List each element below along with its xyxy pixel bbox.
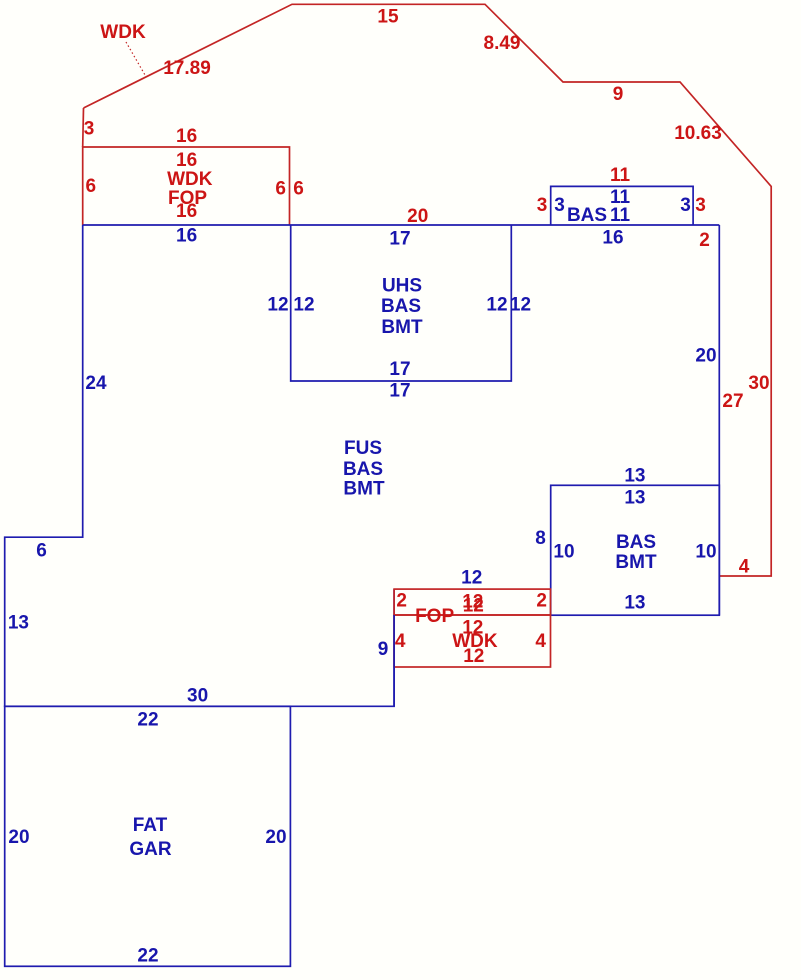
svg-text:20: 20 xyxy=(265,827,286,848)
svg-text:3: 3 xyxy=(695,195,706,216)
svg-text:11: 11 xyxy=(610,165,631,186)
svg-text:GAR: GAR xyxy=(129,839,172,860)
svg-text:BMT: BMT xyxy=(615,552,657,573)
svg-text:30: 30 xyxy=(187,686,208,707)
svg-text:3: 3 xyxy=(554,195,565,216)
svg-text:2: 2 xyxy=(699,230,710,251)
svg-text:12: 12 xyxy=(267,294,288,315)
svg-text:10.63: 10.63 xyxy=(674,123,722,144)
svg-text:30: 30 xyxy=(748,373,769,394)
svg-text:12: 12 xyxy=(461,568,482,589)
svg-text:FAT: FAT xyxy=(133,815,168,836)
svg-text:6: 6 xyxy=(86,176,97,197)
svg-text:BMT: BMT xyxy=(381,317,423,338)
svg-text:17: 17 xyxy=(389,229,410,250)
svg-text:16: 16 xyxy=(176,201,197,222)
svg-text:10: 10 xyxy=(553,541,574,562)
svg-text:20: 20 xyxy=(695,345,716,366)
svg-text:2: 2 xyxy=(536,590,547,611)
svg-text:WDK: WDK xyxy=(100,22,146,43)
svg-text:9: 9 xyxy=(613,84,624,105)
svg-text:FOP: FOP xyxy=(415,606,454,627)
svg-text:16: 16 xyxy=(602,228,623,249)
svg-text:4: 4 xyxy=(739,557,750,578)
svg-text:13: 13 xyxy=(624,593,645,614)
svg-text:24: 24 xyxy=(85,373,107,394)
svg-text:FUS: FUS xyxy=(344,438,382,459)
svg-text:UHS: UHS xyxy=(382,276,422,297)
svg-text:22: 22 xyxy=(137,946,158,967)
svg-text:27: 27 xyxy=(722,391,743,412)
svg-text:11: 11 xyxy=(610,205,631,226)
svg-text:3: 3 xyxy=(537,195,548,216)
svg-text:12: 12 xyxy=(486,294,507,315)
svg-text:6: 6 xyxy=(275,178,286,199)
svg-text:10: 10 xyxy=(695,541,716,562)
svg-text:17: 17 xyxy=(389,359,410,380)
svg-text:4: 4 xyxy=(535,631,546,652)
svg-text:3: 3 xyxy=(680,195,691,216)
svg-text:16: 16 xyxy=(176,150,197,171)
svg-text:12: 12 xyxy=(463,646,484,667)
svg-text:13: 13 xyxy=(8,613,29,634)
svg-text:13: 13 xyxy=(624,488,645,509)
svg-text:12: 12 xyxy=(510,294,531,315)
svg-text:12: 12 xyxy=(463,596,484,617)
svg-text:15: 15 xyxy=(377,7,399,28)
svg-text:20: 20 xyxy=(8,827,29,848)
svg-text:BAS: BAS xyxy=(381,296,421,317)
svg-text:17.89: 17.89 xyxy=(163,58,211,79)
svg-text:9: 9 xyxy=(378,639,389,660)
svg-text:22: 22 xyxy=(137,710,158,731)
svg-text:4: 4 xyxy=(395,631,406,652)
svg-text:3: 3 xyxy=(84,118,95,139)
svg-text:6: 6 xyxy=(36,541,47,562)
svg-text:BAS: BAS xyxy=(567,205,607,226)
svg-text:16: 16 xyxy=(176,126,197,147)
svg-text:BMT: BMT xyxy=(343,478,385,499)
svg-text:WDK: WDK xyxy=(167,169,213,190)
svg-text:6: 6 xyxy=(293,178,304,199)
svg-text:17: 17 xyxy=(389,380,410,401)
svg-text:16: 16 xyxy=(176,226,197,247)
svg-text:8: 8 xyxy=(535,528,546,549)
svg-text:BAS: BAS xyxy=(343,459,383,480)
svg-text:2: 2 xyxy=(396,590,407,611)
svg-text:20: 20 xyxy=(407,206,428,227)
svg-text:BAS: BAS xyxy=(616,532,656,553)
svg-text:13: 13 xyxy=(624,465,645,486)
svg-text:12: 12 xyxy=(293,294,314,315)
svg-text:8.49: 8.49 xyxy=(484,33,521,54)
